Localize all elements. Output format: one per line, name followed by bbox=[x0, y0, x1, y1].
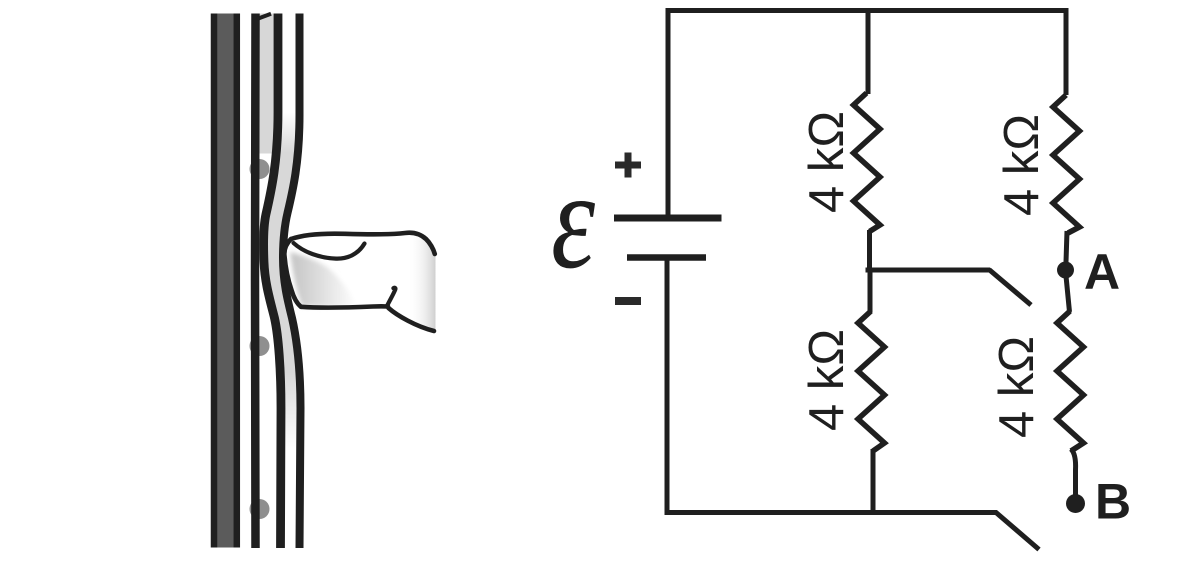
wire: middle branch top drop bbox=[866, 11, 871, 95]
knuckle curl bbox=[387, 288, 395, 306]
svg-text:4 kΩ: 4 kΩ bbox=[995, 114, 1049, 216]
svg-text:4 kΩ: 4 kΩ bbox=[800, 111, 854, 213]
svg-text:4 kΩ: 4 kΩ bbox=[800, 329, 854, 431]
hand bottom outline bbox=[389, 308, 435, 331]
svg-text:4 kΩ: 4 kΩ bbox=[990, 336, 1044, 438]
finger tip left edge bbox=[284, 239, 301, 307]
node A dot bbox=[1057, 262, 1074, 279]
sheet 2 top wedge bbox=[257, 14, 271, 19]
spacer dot 2 bbox=[250, 336, 270, 356]
finger fill bbox=[284, 233, 435, 332]
glass substrate bar (gray fill) bbox=[211, 14, 240, 548]
wire: battery negative down to bottom rail, bottom rail, diagonal contact bbox=[667, 258, 1039, 550]
resistor R3 (right top) 4 kOhm bbox=[1053, 95, 1080, 233]
battery bottom plate bbox=[627, 254, 706, 261]
fingernail bbox=[294, 243, 365, 259]
finger right soft gradient bbox=[284, 233, 435, 332]
wire: middle branch bottom lead bbox=[870, 268, 873, 513]
sheet 2 left edge bbox=[264, 14, 281, 549]
sheet 2 right edge bbox=[283, 14, 301, 549]
flexible sheet 2 fill bbox=[264, 14, 301, 549]
svg-text:ε: ε bbox=[551, 143, 595, 298]
substrate right black edge bbox=[234, 14, 241, 548]
wire: right branch through node A bbox=[1066, 231, 1070, 312]
sheet 1 (inner conductive layer) bbox=[251, 14, 260, 549]
svg-text:B: B bbox=[1095, 474, 1131, 530]
substrate left black edge bbox=[211, 14, 218, 548]
wire: middle junction horizontal bbox=[866, 268, 991, 273]
spacer dot 1 bbox=[250, 159, 270, 179]
finger top outline bbox=[291, 233, 435, 254]
wire: R4 bottom lead to node B bbox=[1071, 449, 1076, 496]
resistor R1 (middle top) 4 kOhm bbox=[854, 93, 881, 232]
svg-text:A: A bbox=[1084, 244, 1120, 300]
gray gap shading top bbox=[260, 14, 275, 154]
wire: middle branch between resistors bbox=[867, 230, 872, 272]
finger bottom outline bbox=[301, 306, 388, 307]
plus sign bbox=[615, 153, 641, 178]
spacer dot 3 bbox=[250, 499, 270, 519]
wire: top rail with left and right drops bbox=[668, 11, 1066, 219]
wire: middle switch diagonal contact bbox=[989, 270, 1031, 306]
battery top plate bbox=[614, 215, 722, 222]
fingertip pad shading bbox=[290, 252, 356, 307]
resistor R2 (middle bottom) 4 kOhm bbox=[858, 311, 885, 451]
minus sign bbox=[615, 297, 641, 305]
node B dot bbox=[1066, 494, 1085, 513]
resistor R4 (right bottom) 4 kOhm bbox=[1057, 311, 1084, 451]
